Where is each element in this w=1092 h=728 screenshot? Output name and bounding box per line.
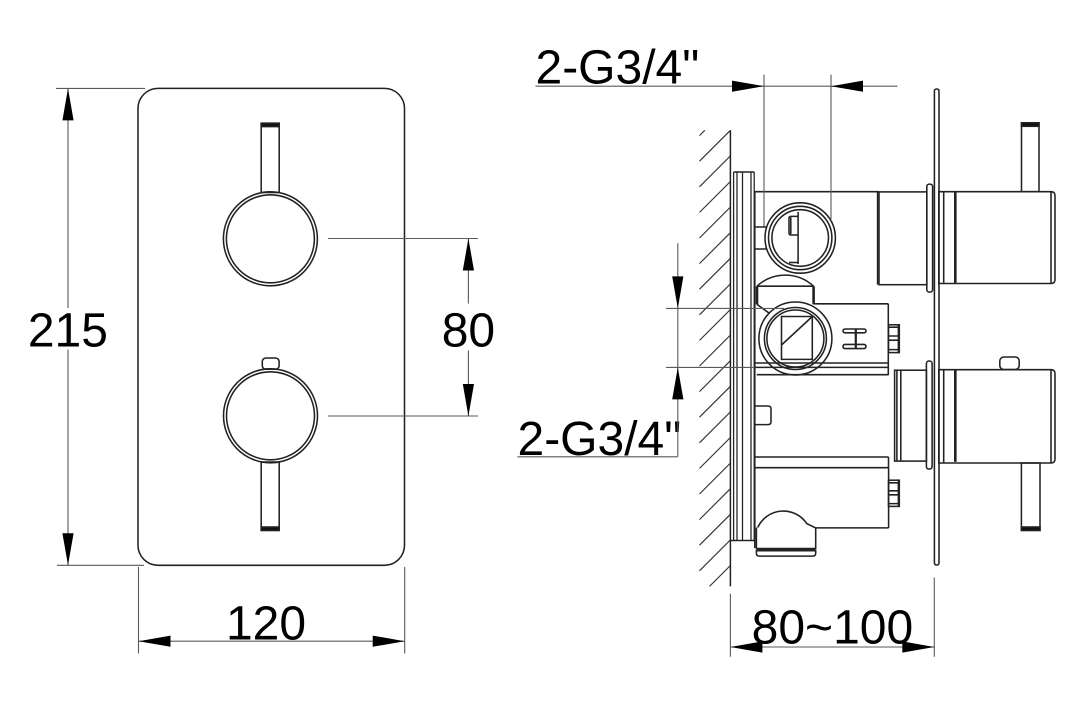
dimension 215 extension lines — [56, 88, 145, 565]
bottom knob — [224, 369, 318, 463]
top port chord — [797, 212, 799, 264]
valve body top edge — [755, 191, 880, 193]
dimension 80 line — [467, 239, 469, 417]
bottom handle cylinder — [939, 370, 1055, 463]
leader lower extension line — [666, 366, 755, 368]
valve body left edge — [754, 192, 756, 548]
port connecting lines — [755, 227, 767, 249]
top knob lever — [261, 123, 279, 192]
dimension 80~100 arrows — [730, 641, 762, 652]
top port circles — [765, 203, 835, 273]
foot cap — [756, 551, 815, 556]
trim plate — [934, 89, 939, 565]
left tab — [755, 406, 771, 425]
mounting plate — [734, 172, 755, 541]
dimension 80~100 line — [730, 646, 934, 648]
front plate — [138, 88, 405, 565]
svg-text:80~100: 80~100 — [752, 601, 914, 654]
foot dome — [758, 511, 816, 528]
top handle cylinder — [939, 192, 1055, 284]
top handle lever — [1022, 123, 1040, 192]
bottom handle tab — [1000, 357, 1019, 370]
svg-text:120: 120 — [226, 597, 306, 650]
middle circle square — [782, 317, 813, 360]
wall edge — [729, 130, 731, 586]
cartridge nut top — [889, 325, 900, 353]
top knob — [223, 192, 317, 286]
dimension 80 extension lines — [328, 239, 478, 417]
dimension 80 arrows — [463, 239, 474, 271]
dimension 80~100 extension lines — [730, 578, 934, 657]
dimension 215 arrows — [62, 88, 73, 120]
leader vertical — [677, 243, 679, 457]
boss dome between ports — [757, 275, 814, 286]
top dimension extension lines — [764, 75, 831, 228]
dimension 120 line — [139, 640, 405, 642]
top dimension line — [536, 85, 898, 87]
top dimension arrows — [732, 81, 764, 92]
svg-text:215: 215 — [28, 304, 108, 357]
middle circle — [759, 302, 832, 375]
dimension 120 arrows — [139, 636, 171, 647]
wall hatching — [700, 130, 731, 586]
middle circle diagonal — [782, 317, 813, 346]
leader arrows — [672, 276, 683, 308]
svg-text:80: 80 — [442, 305, 495, 358]
leader upper extension line — [666, 307, 784, 309]
dimension 120 extension lines — [139, 567, 405, 654]
top port lower chord — [789, 262, 798, 264]
temperature screw symbol — [843, 329, 866, 349]
lower mid block — [888, 457, 890, 468]
svg-text:2-G3/4": 2-G3/4" — [518, 413, 682, 466]
cartridge nut bottom — [889, 480, 900, 506]
leader underline — [518, 456, 678, 458]
bottom handle lever — [1021, 463, 1040, 530]
lower block — [816, 468, 889, 528]
bottom shaft housing — [895, 370, 927, 461]
middle block — [814, 304, 889, 375]
bottom knob lever — [261, 462, 279, 530]
top collar — [927, 184, 933, 292]
bottom collar — [926, 361, 932, 469]
foot body — [756, 528, 815, 550]
top shaft housing — [879, 192, 927, 285]
dimension 215 line — [67, 88, 69, 565]
bottom knob tab — [262, 358, 279, 369]
top port slot — [789, 216, 798, 235]
